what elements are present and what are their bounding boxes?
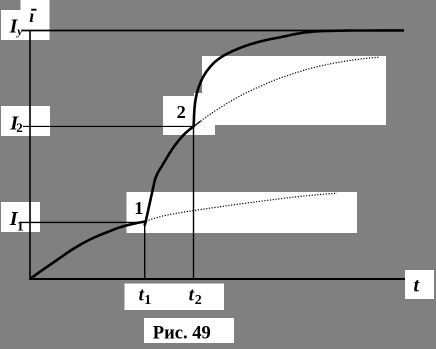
I2 guide line [23, 125, 194, 127]
y axis [29, 31, 31, 280]
svg-text:1: 1 [17, 219, 24, 234]
svg-text:у: у [15, 24, 23, 38]
solid curve segment 3 (point 2 to steady level) [194, 30, 404, 127]
svg-text:t: t [189, 284, 195, 305]
svg-text:2: 2 [16, 120, 23, 135]
x axis [29, 278, 405, 280]
t1 vertical line [144, 222, 146, 278]
label box I2 [1, 106, 50, 136]
svg-text:1: 1 [144, 293, 151, 308]
caption box [144, 318, 234, 343]
white box for t1 t2 labels [125, 284, 225, 311]
dotted curve B dense start at point 2 [194, 121, 201, 126]
white box around point 2 [163, 96, 215, 135]
white band behind lower dotted curve [127, 192, 358, 233]
white box for t axis label [405, 270, 434, 299]
white box extension left of big rectangle [194, 93, 215, 135]
asymptote line at steady level I [22, 30, 404, 32]
big white rectangle behind upper dotted curve [202, 56, 386, 125]
dotted curve A (exponential 1 continuation past point 1) [146, 193, 337, 221]
macron over i [31, 9, 36, 11]
label box I1 [1, 202, 40, 232]
I1 guide line [21, 221, 146, 223]
svg-text:2: 2 [177, 102, 186, 122]
dotted curve B (exponential 2 continuation past point 2) [194, 57, 380, 126]
svg-text:1: 1 [134, 198, 143, 218]
label box I-steady (top-left) [1, 10, 21, 40]
t2 vertical line [193, 126, 195, 278]
svg-text:Рис. 49: Рис. 49 [153, 323, 211, 343]
label box i-bar (top) [21, 0, 50, 40]
solid curve segment 2 (point 1 to point 2) [145, 126, 194, 226]
svg-text:2: 2 [195, 293, 202, 308]
solid curve segment 1 (origin to point 1) [30, 221, 147, 279]
